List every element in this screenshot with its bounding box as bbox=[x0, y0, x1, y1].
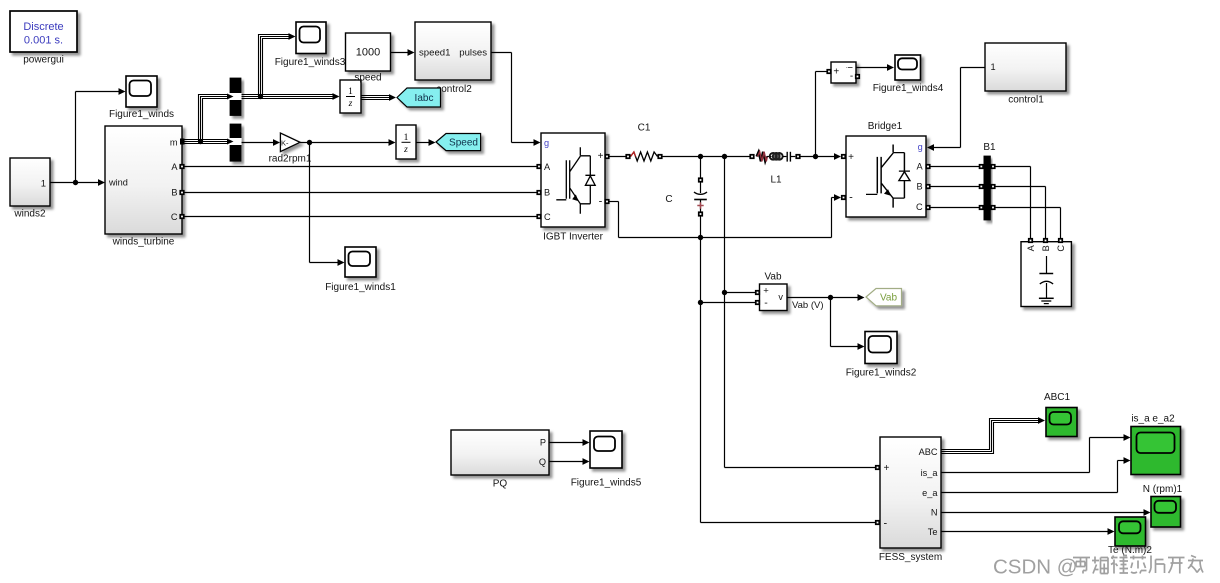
svg-text:+: + bbox=[833, 67, 839, 78]
svg-text:pulses: pulses bbox=[459, 48, 487, 59]
svg-text:+: + bbox=[763, 285, 769, 296]
svg-text:-: - bbox=[599, 196, 603, 208]
svg-text:winds_turbine: winds_turbine bbox=[112, 237, 175, 248]
svg-text:A: A bbox=[1026, 244, 1036, 251]
svg-text:C1: C1 bbox=[638, 123, 651, 134]
svg-text:-: - bbox=[850, 71, 853, 82]
svg-text:speed: speed bbox=[354, 73, 381, 84]
svg-text:ABC: ABC bbox=[919, 447, 938, 457]
svg-text:Te (N.m)2: Te (N.m)2 bbox=[1108, 545, 1152, 556]
svg-text:C: C bbox=[171, 212, 178, 222]
svg-text:C: C bbox=[665, 194, 672, 205]
svg-text:Figure1_winds1: Figure1_winds1 bbox=[325, 282, 396, 293]
svg-text:N: N bbox=[931, 508, 938, 518]
svg-text:A: A bbox=[171, 162, 178, 172]
svg-text:wind: wind bbox=[108, 178, 128, 188]
svg-text:-: - bbox=[764, 297, 768, 309]
svg-text:B: B bbox=[917, 182, 923, 192]
svg-text:1: 1 bbox=[991, 62, 996, 72]
svg-text:is_a e_a2: is_a e_a2 bbox=[1131, 414, 1175, 425]
svg-text:Vab: Vab bbox=[880, 293, 897, 304]
svg-text:Q: Q bbox=[539, 457, 546, 467]
svg-text:z: z bbox=[348, 99, 353, 109]
svg-text:1: 1 bbox=[41, 179, 46, 190]
svg-text:CSDN @: CSDN @ bbox=[993, 556, 1078, 579]
svg-text:Figure1_winds5: Figure1_winds5 bbox=[571, 478, 642, 489]
svg-text:+: + bbox=[598, 151, 604, 162]
svg-text:+: + bbox=[848, 152, 854, 163]
svg-text:C: C bbox=[544, 212, 551, 222]
svg-text:Discrete: Discrete bbox=[23, 21, 63, 33]
svg-text:+: + bbox=[884, 463, 890, 474]
svg-text:Vab: Vab bbox=[764, 272, 781, 283]
svg-text:z: z bbox=[403, 145, 408, 155]
svg-text:control2: control2 bbox=[436, 84, 472, 95]
svg-text:B: B bbox=[1041, 245, 1051, 251]
svg-text:1000: 1000 bbox=[356, 47, 380, 59]
svg-text:-: - bbox=[849, 192, 853, 204]
svg-text:IGBT Inverter: IGBT Inverter bbox=[543, 232, 604, 243]
svg-text:0.001 s.: 0.001 s. bbox=[24, 35, 63, 47]
svg-text:Figure1_winds: Figure1_winds bbox=[109, 109, 174, 120]
svg-text:powergui: powergui bbox=[23, 55, 64, 66]
svg-text:speed1: speed1 bbox=[419, 48, 450, 59]
svg-text:Figure1_winds2: Figure1_winds2 bbox=[846, 368, 917, 379]
svg-text:B1: B1 bbox=[983, 142, 996, 153]
svg-text:Figure1_winds3: Figure1_winds3 bbox=[275, 57, 346, 68]
svg-text:FESS_system: FESS_system bbox=[879, 552, 942, 563]
svg-text:P: P bbox=[540, 438, 546, 448]
svg-text:Vab (V): Vab (V) bbox=[792, 300, 824, 311]
svg-text:m: m bbox=[170, 137, 178, 147]
svg-text:A: A bbox=[544, 162, 551, 172]
svg-text:g: g bbox=[918, 142, 923, 152]
svg-text:C: C bbox=[916, 202, 923, 212]
svg-text:N (rpm)1: N (rpm)1 bbox=[1143, 484, 1183, 495]
svg-text:ABC1: ABC1 bbox=[1044, 392, 1071, 403]
svg-text:is_a: is_a bbox=[921, 468, 939, 478]
svg-text:1: 1 bbox=[348, 87, 353, 97]
svg-text:Te: Te bbox=[928, 527, 938, 537]
svg-text:Iabc: Iabc bbox=[415, 93, 434, 104]
svg-text:B: B bbox=[544, 187, 550, 197]
svg-text:Speed: Speed bbox=[449, 137, 478, 148]
svg-text:C: C bbox=[1056, 245, 1066, 252]
svg-text:-: - bbox=[884, 518, 888, 530]
svg-text:K-: K- bbox=[281, 138, 289, 147]
svg-text:B: B bbox=[171, 187, 177, 197]
svg-text:A: A bbox=[917, 162, 924, 172]
svg-text:PQ: PQ bbox=[493, 479, 508, 490]
svg-text:i: i bbox=[846, 66, 855, 68]
svg-text:v: v bbox=[778, 292, 783, 302]
svg-text:Bridge1: Bridge1 bbox=[868, 121, 903, 132]
svg-text:rad2rpm1: rad2rpm1 bbox=[269, 154, 312, 165]
svg-text:e_a: e_a bbox=[922, 488, 938, 498]
svg-text:winds2: winds2 bbox=[13, 209, 46, 220]
svg-text:Figure1_winds4: Figure1_winds4 bbox=[873, 83, 944, 94]
svg-text:1: 1 bbox=[404, 133, 409, 143]
svg-text:g: g bbox=[544, 138, 549, 148]
svg-text:control1: control1 bbox=[1008, 95, 1044, 106]
svg-text:L1: L1 bbox=[770, 175, 782, 186]
